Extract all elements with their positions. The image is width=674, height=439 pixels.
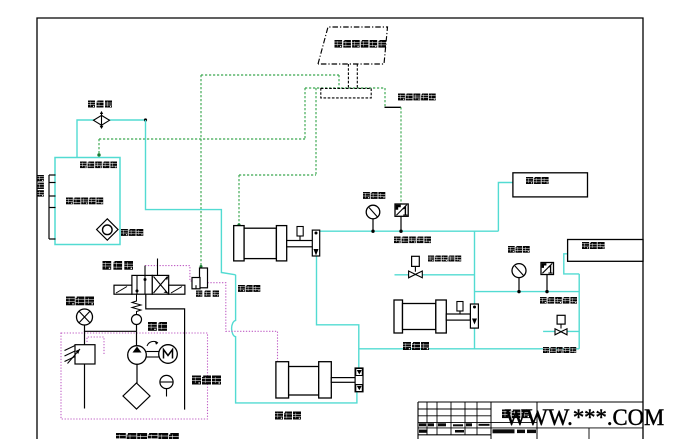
return line from valve to tank box [146, 294, 185, 409]
circulation cylinder body [403, 304, 436, 330]
pump outlet down to filter [136, 364, 138, 383]
wire cyan bus1 high pressure y231 [317, 230, 499, 232]
test piece box 2 [568, 240, 643, 262]
wire green signal h1 y75 [201, 74, 339, 76]
constant rod [331, 378, 355, 383]
label touch operation [398, 94, 405, 101]
pressure gauge PG1 circle with X [77, 309, 93, 325]
level gauge LG1 circle [160, 375, 173, 388]
wire cyan circulation pump outlet down to bus3 [474, 327, 476, 349]
label tank name [66, 198, 73, 205]
high pressure gauge G1 [366, 205, 380, 219]
wire cyan tank to filter [77, 120, 95, 157]
wire green h y175 [239, 174, 316, 176]
wire green v x316 to y175 [315, 88, 317, 175]
gauge stem to pump line [85, 325, 137, 331]
wire cyan suction down and across y209.6 [146, 120, 236, 275]
booster cylinder body [244, 228, 276, 258]
relief valve spring hatches [65, 346, 76, 351]
booster rod [287, 241, 316, 247]
wire pilot proportional valve to pump line [208, 283, 278, 361]
wire cyan right riser x579 [578, 274, 580, 349]
pump suction line [136, 331, 138, 346]
filter F1 diamond [94, 115, 110, 125]
wire pilot directional valve bridge [145, 266, 193, 281]
wire cyan booster outlet down [317, 256, 359, 368]
label constant pressure pump [275, 412, 283, 420]
label high pressure gauge 1 [363, 192, 370, 199]
label high pressure relief valve 2 [543, 347, 549, 353]
test piece box 1 [513, 173, 588, 197]
wire green drop x339 [338, 75, 340, 88]
title block drawing name [502, 410, 511, 419]
title block small text marks [419, 423, 426, 426]
check valve circle [132, 315, 142, 325]
label booster pump [238, 285, 245, 292]
wire green v x401 to pressure transmitter U1 [400, 107, 402, 203]
directional valve DV1 body [132, 275, 152, 294]
valve T-port stub [157, 259, 159, 276]
relief valve arrow [68, 349, 81, 364]
booster rod top valve [297, 227, 303, 237]
wire cyan relief valve 1 branch [395, 274, 475, 276]
circulation rod top valve [457, 302, 463, 312]
label pressure sensor 2 [540, 297, 547, 304]
label level gauge [192, 376, 201, 385]
label directional valve [103, 261, 112, 270]
constant cylinder right cap [319, 362, 332, 398]
wire green signal v1 x201 to proportional valve [200, 75, 202, 266]
enclosure hydraulic power unit dashed box [61, 333, 208, 419]
constant outlet fitting [355, 368, 363, 392]
wire cyan relief valve 2 branch [543, 330, 579, 332]
wire cyan suction down with crossing arc [232, 275, 357, 403]
label heater [121, 229, 128, 236]
circulation cylinder left cap [394, 300, 403, 333]
title block grid [418, 401, 643, 403]
level gauge comb on tank side [48, 175, 50, 239]
caption hydraulic system unit (cut) [116, 433, 126, 439]
computer monitor (data acquisition system) [318, 27, 388, 64]
wire green v x385 [384, 88, 386, 107]
coupling lines [146, 351, 158, 353]
wire cyan bus3 y348.8 [359, 348, 579, 350]
wire green signal h2 y88 [305, 87, 385, 89]
monitor stand [347, 64, 349, 88]
label on monitor [335, 40, 343, 48]
pump P1 circle with triangle [128, 346, 147, 365]
booster outlet fitting [312, 230, 319, 256]
relief valve V1 bowtie [409, 271, 423, 278]
proportional valve PV1 [200, 268, 208, 288]
coupling rotation arrow [147, 341, 158, 346]
relief valve RV1 square [75, 345, 95, 364]
tank stainless steel water tank [55, 158, 120, 245]
label test piece 2 [582, 242, 589, 249]
booster cylinder left cap [234, 226, 244, 261]
label high pressure gauge 2 [508, 246, 515, 253]
valve top pilot stub [144, 266, 146, 276]
wire cyan bus2 y291.6 [475, 291, 580, 293]
wire cyan vertical to circulation pump x474.5 [474, 231, 476, 304]
valve crossed arrows [154, 277, 168, 294]
suction filter diamond [123, 383, 150, 409]
wire black jog under touch label [385, 106, 402, 108]
spring under valve [132, 294, 141, 314]
label circulation pump [403, 342, 411, 350]
motor M1 circle [159, 345, 178, 364]
constant cylinder body [289, 367, 319, 396]
label motor [148, 322, 157, 331]
high pressure gauge G2 [512, 264, 526, 278]
label temperature sensor [80, 162, 87, 169]
high pressure relief valve V2 square [557, 315, 565, 324]
relief valve V2 bowtie [555, 329, 567, 335]
label filter [88, 101, 95, 108]
svg-text:WWW.***.COM: WWW.***.COM [505, 405, 664, 430]
wire green stub to tank temperature sensor [98, 139, 100, 154]
wire green long horizontal y139 to tank [99, 138, 305, 140]
label pressure sensor 1 [394, 237, 401, 244]
constant cylinder left cap [276, 362, 289, 398]
booster cylinder right cap [276, 226, 286, 261]
wire cyan test piece 2 connection [564, 254, 579, 274]
heater diamond in tank [97, 219, 118, 240]
circulation rod [446, 314, 470, 320]
label test piece 1 [526, 177, 533, 184]
wire green v x239 to booster pump [238, 175, 240, 225]
wire cyan bus1 up to test piece 1 [498, 183, 513, 232]
wire green v x305 to y139 [304, 88, 306, 139]
pressure transmitter U1 [395, 204, 408, 216]
keyboard dashed box [321, 88, 371, 98]
label high pressure relief valve 1 [428, 256, 434, 262]
wire cyan filter to suction corner [107, 119, 146, 121]
label level gauge vertical [38, 175, 44, 181]
circulation outlet fitting [470, 304, 478, 328]
label pressure gauge [66, 297, 75, 306]
node junction dot at filter line [144, 118, 147, 121]
label proportional valve [196, 291, 202, 297]
circulation cylinder right cap [436, 300, 447, 333]
pressure transmitter U2 [541, 263, 554, 275]
wire pilot relief valve loop [87, 337, 104, 355]
high pressure relief valve V1 square [412, 256, 420, 266]
valve straight path [144, 275, 146, 294]
